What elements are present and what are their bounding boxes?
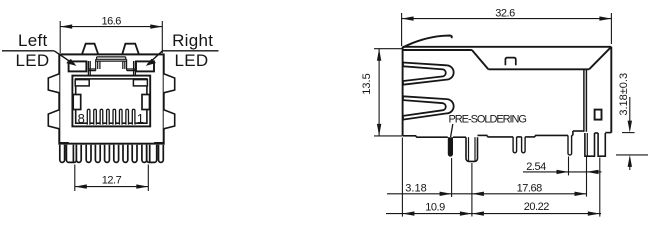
right pin A bbox=[568, 135, 572, 155]
8 contact combs bbox=[87, 109, 135, 124]
svg-text:Right: Right bbox=[172, 31, 213, 50]
right post B bbox=[585, 133, 595, 156]
near face right edge bbox=[584, 69, 587, 132]
svg-text:PRE-SOLDERING: PRE-SOLDERING bbox=[449, 114, 527, 126]
front view shield outline bbox=[59, 54, 163, 143]
side body outline bbox=[403, 47, 612, 136]
right post C bbox=[598, 133, 605, 156]
side spring bump left upper bbox=[48, 74, 59, 93]
through-hole pin bbox=[466, 137, 478, 161]
step verticals right bbox=[127, 61, 135, 76]
shield bottom corner ledges bbox=[59, 142, 69, 144]
step verticals left bbox=[88, 61, 95, 76]
svg-text:17.68: 17.68 bbox=[517, 182, 542, 194]
dimension 13.5 left of side view bbox=[361, 49, 402, 136]
label Left LED with leader bbox=[2, 31, 76, 70]
dimension 2.54 bbox=[523, 157, 602, 197]
dimension 3.18±0.3 right of side view bbox=[616, 73, 648, 170]
jack cavity inner bbox=[76, 79, 147, 123]
dimensions 10.9 and 20.22 line bbox=[386, 138, 601, 217]
svg-text:8: 8 bbox=[78, 111, 85, 126]
dimensions 3.18 and 17.68 line bbox=[387, 158, 587, 217]
jack cavity outer bbox=[72, 76, 150, 127]
right side small window bbox=[595, 110, 602, 120]
label Right LED with leader bbox=[146, 31, 219, 70]
latch bridge top center bbox=[96, 57, 127, 61]
side spring bump right lower bbox=[164, 110, 175, 129]
svg-text:1: 1 bbox=[137, 111, 144, 126]
svg-text:2.54: 2.54 bbox=[526, 161, 546, 173]
svg-text:13.5: 13.5 bbox=[361, 73, 373, 94]
inner step ledge right bbox=[133, 80, 147, 86]
top face clip tab bbox=[505, 58, 515, 66]
dimension 32.6 top of side view bbox=[402, 7, 612, 46]
bottom legs comb bbox=[60, 145, 163, 163]
LED window left bbox=[69, 61, 87, 71]
side spring bump left lower bbox=[48, 110, 59, 129]
LED window right bbox=[136, 61, 154, 71]
svg-text:LED: LED bbox=[175, 51, 209, 70]
bridge post right bbox=[123, 59, 127, 70]
side latch spring upper bbox=[403, 63, 454, 85]
svg-text:16.6: 16.6 bbox=[101, 16, 121, 28]
top EMI tab right bbox=[122, 44, 139, 54]
dimension 12.7 bottom of front view bbox=[75, 165, 149, 192]
inner step ledge left bbox=[75, 80, 89, 86]
top EMI tab left bbox=[82, 44, 98, 54]
svg-text:20.22: 20.22 bbox=[524, 201, 549, 213]
side slot right bbox=[142, 95, 150, 110]
side slot left bbox=[73, 95, 81, 110]
short pin 2 bbox=[522, 137, 526, 153]
svg-text:3.18±0.3: 3.18±0.3 bbox=[618, 73, 630, 116]
short pin 1 bbox=[513, 137, 517, 153]
svg-text:Left: Left bbox=[18, 31, 48, 50]
side spring bump right upper bbox=[164, 74, 175, 93]
svg-text:LED: LED bbox=[16, 51, 50, 70]
dimension 16.6 top of front view bbox=[60, 16, 162, 53]
pre-soldering pin (filled) bbox=[448, 137, 453, 156]
top ground spring curve bbox=[403, 36, 452, 48]
svg-text:32.6: 32.6 bbox=[495, 7, 515, 19]
side latch spring lower bbox=[403, 96, 454, 119]
bottom edge of side body bbox=[403, 131, 612, 137]
svg-text:10.9: 10.9 bbox=[425, 202, 445, 214]
bridge post left bbox=[96, 59, 100, 70]
svg-text:12.7: 12.7 bbox=[102, 174, 122, 186]
svg-text:3.18: 3.18 bbox=[405, 182, 426, 194]
